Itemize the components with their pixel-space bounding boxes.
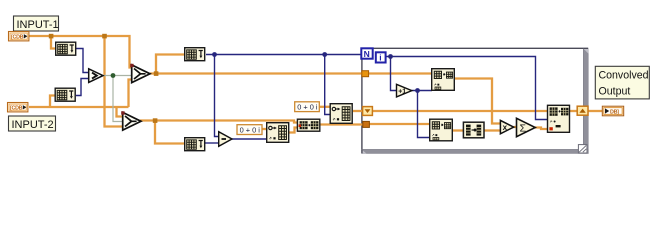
svg-text:INPUT-2: INPUT-2 <box>12 119 54 131</box>
svg-text:x: x <box>503 123 508 132</box>
svg-text:Output: Output <box>599 86 631 98</box>
svg-text:Σ: Σ <box>520 122 527 134</box>
svg-text:i: i <box>379 53 381 63</box>
svg-text:INPUT-1: INPUT-1 <box>17 19 59 31</box>
svg-text:DB]: DB] <box>610 109 619 115</box>
svg-text:0 + 0 i: 0 + 0 i <box>240 125 261 134</box>
svg-text:+1: +1 <box>398 88 406 95</box>
svg-text:N: N <box>364 49 370 59</box>
svg-text:0 + 0 i: 0 + 0 i <box>297 103 318 112</box>
svg-text:Convolved: Convolved <box>599 70 649 82</box>
